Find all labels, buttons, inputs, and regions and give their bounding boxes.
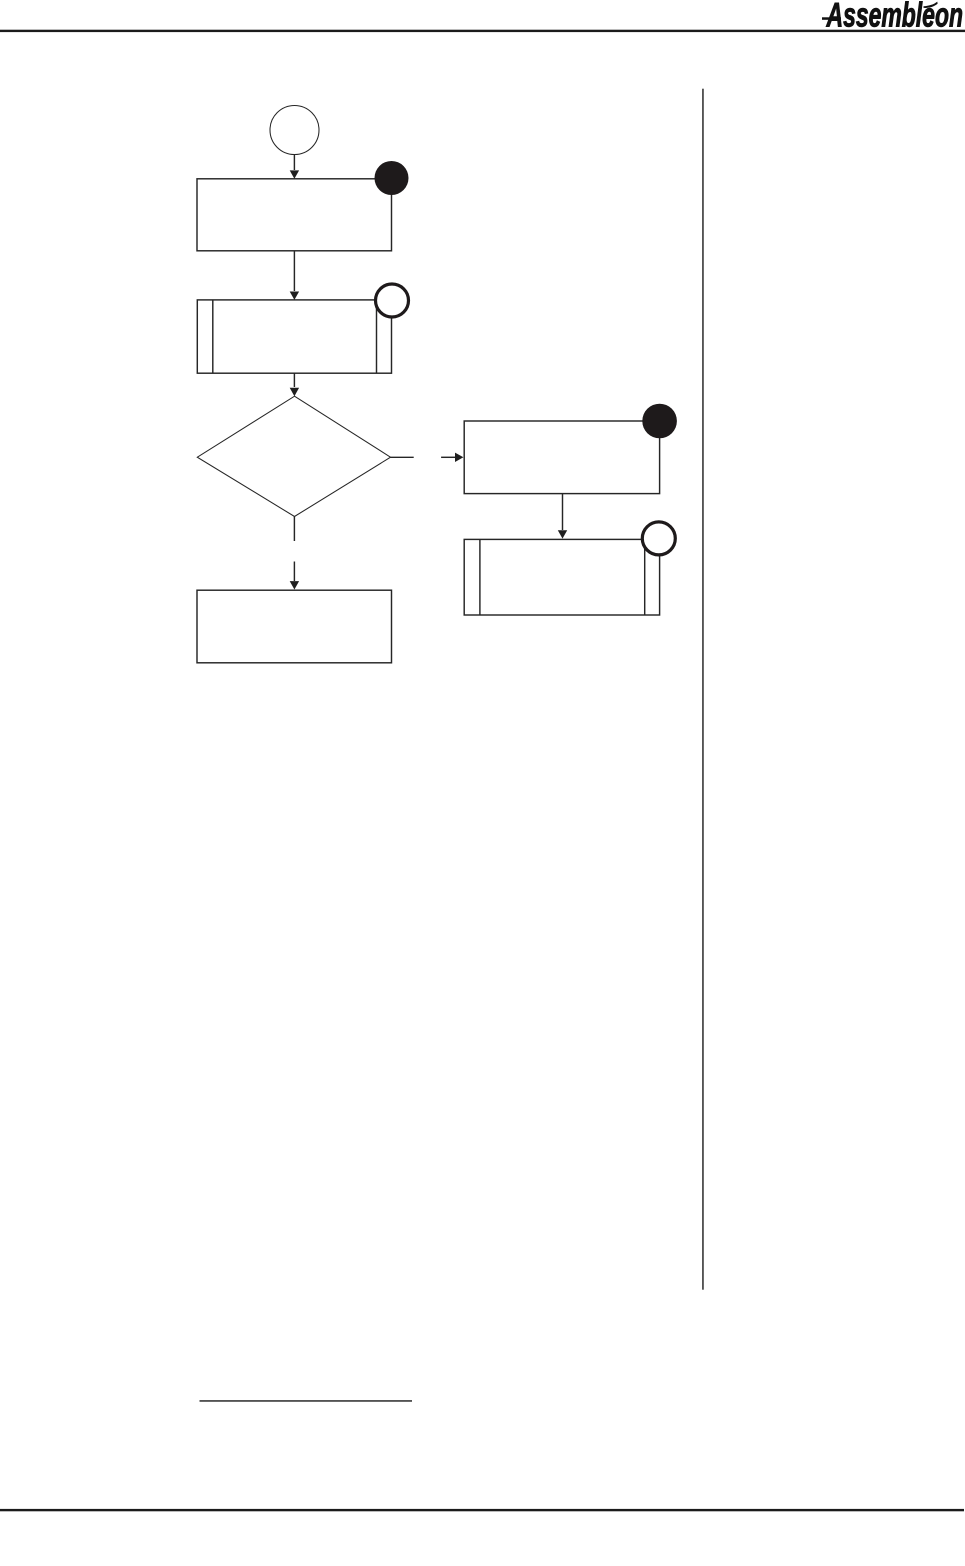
svg-text:Assembleon: Assembleon [826, 0, 963, 34]
